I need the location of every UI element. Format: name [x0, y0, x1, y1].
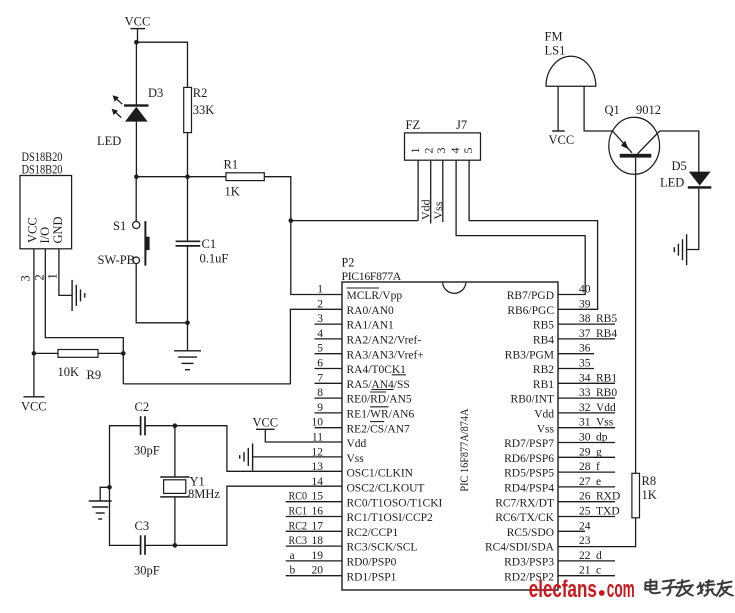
- svg-text:RD4/PSP4: RD4/PSP4: [504, 483, 554, 495]
- svg-text:21: 21: [579, 565, 591, 577]
- svg-text:c: c: [596, 565, 601, 577]
- svg-text:31: 31: [579, 417, 591, 429]
- wire C1 bottom: [187, 246, 189, 351]
- svg-text:RD1/PSP1: RD1/PSP1: [347, 571, 397, 583]
- svg-text:8MHz: 8MHz: [188, 487, 220, 501]
- junction C1/S1: [185, 321, 190, 326]
- svg-text:36: 36: [579, 343, 591, 355]
- wire J7 pin4 to chip pin40: [456, 160, 585, 294]
- svg-text:RA2/AN2/Vref-: RA2/AN2/Vref-: [347, 335, 422, 347]
- svg-text:dp: dp: [596, 432, 608, 444]
- svg-text:33K: 33K: [193, 103, 215, 117]
- wire J7 pin3: [442, 160, 444, 222]
- junction R2/C1: [185, 174, 190, 179]
- svg-text:RB3/PGM: RB3/PGM: [505, 349, 554, 361]
- svg-text:32: 32: [579, 402, 591, 414]
- LED D3: [112, 95, 149, 121]
- power VCC (speaker): [552, 130, 565, 132]
- wire J7 pin1 Vdd: [417, 160, 419, 220]
- svg-text:8: 8: [317, 387, 323, 399]
- svg-text:e: e: [596, 476, 601, 488]
- svg-text:LED: LED: [97, 134, 121, 148]
- ground (C1/S1): [174, 350, 201, 352]
- wire node to S1 top: [135, 177, 137, 222]
- resistor R9: [58, 350, 98, 358]
- svg-text:28: 28: [579, 461, 591, 473]
- wire DS18B20 pin3 (VCC): [33, 249, 35, 397]
- svg-text:OSC1/CLKIN: OSC1/CLKIN: [347, 468, 414, 480]
- svg-text:9012: 9012: [636, 103, 661, 117]
- svg-text:13: 13: [312, 461, 324, 473]
- pin adornment overline CS: [370, 421, 384, 423]
- svg-text:1: 1: [46, 273, 60, 279]
- wire C3 right to OSC2: [145, 486, 342, 545]
- svg-text:RA0/AN0: RA0/AN0: [347, 305, 395, 317]
- resistor R8: [632, 473, 640, 518]
- LED D5: [689, 172, 711, 186]
- wire DS18B20 pin2 (I/O): [45, 249, 123, 384]
- wire DS18B20 pin1 (GND): [59, 249, 72, 296]
- ground (DS18B20): [71, 280, 73, 311]
- svg-text:R8: R8: [642, 474, 657, 488]
- svg-text:RB2: RB2: [533, 364, 554, 376]
- svg-text:RA3/AN3/Vref+: RA3/AN3/Vref+: [347, 349, 424, 361]
- svg-text:RB1: RB1: [596, 372, 617, 384]
- svg-text:J7: J7: [456, 118, 467, 132]
- wire VCC to D3: [135, 42, 137, 105]
- svg-text:RA1/AN1: RA1/AN1: [347, 320, 395, 332]
- svg-text:3: 3: [317, 313, 323, 325]
- svg-text:RB4: RB4: [596, 328, 617, 340]
- wire C1 top: [187, 177, 189, 242]
- svg-text:18: 18: [312, 535, 324, 547]
- junction MCLR/Vdd pullup: [289, 218, 294, 223]
- svg-text:4: 4: [448, 148, 462, 154]
- svg-text:14: 14: [312, 476, 324, 488]
- svg-text:RC7/RX/DT: RC7/RX/DT: [495, 497, 554, 509]
- svg-text:RD5/PSP5: RD5/PSP5: [504, 468, 554, 480]
- svg-text:D5: D5: [672, 159, 687, 173]
- svg-text:RXD: RXD: [596, 491, 620, 503]
- pin adornment overline MCLR: [347, 287, 380, 289]
- svg-text:RC4/SDI/SDA: RC4/SDI/SDA: [485, 542, 555, 554]
- svg-text:d: d: [596, 550, 602, 562]
- svg-text:RC6/TX/CK: RC6/TX/CK: [495, 512, 554, 524]
- capacitor C2: [140, 416, 142, 435]
- svg-text:RB7/PGD: RB7/PGD: [507, 290, 554, 302]
- svg-text:27: 27: [579, 476, 591, 488]
- svg-text:OSC2/CLKOUT: OSC2/CLKOUT: [347, 483, 425, 495]
- wire S1 bottom to C1 ground node: [136, 264, 187, 323]
- svg-text:39: 39: [579, 298, 591, 310]
- ground (D5): [686, 234, 688, 265]
- svg-text:LED: LED: [660, 176, 684, 190]
- svg-text:1K: 1K: [642, 488, 657, 502]
- svg-text:26: 26: [579, 491, 591, 503]
- svg-text:R1: R1: [224, 158, 239, 172]
- svg-text:29: 29: [579, 446, 591, 458]
- svg-text:23: 23: [579, 535, 591, 547]
- svg-text:5: 5: [317, 343, 323, 355]
- svg-text:RB6/PGC: RB6/PGC: [507, 305, 554, 317]
- svg-text:PIC 16F877A/874A: PIC 16F877A/874A: [457, 408, 471, 491]
- svg-text:3: 3: [434, 148, 448, 154]
- svg-text:RB5: RB5: [596, 313, 617, 325]
- svg-text:37: 37: [579, 328, 591, 340]
- svg-text:7: 7: [317, 372, 323, 384]
- wire Q1 collector to D5: [660, 131, 699, 172]
- svg-text:2: 2: [317, 298, 323, 310]
- svg-text:11: 11: [312, 432, 323, 444]
- svg-text:GND: GND: [51, 216, 65, 243]
- svg-text:SW-PB: SW-PB: [98, 253, 136, 267]
- pin adornment underline AN4: [371, 389, 393, 391]
- wire Q1 base down: [635, 158, 637, 474]
- svg-text:S1: S1: [113, 219, 126, 233]
- svg-text:FZ: FZ: [406, 118, 421, 132]
- svg-text:40: 40: [579, 284, 591, 296]
- svg-text:RD7/PSP7: RD7/PSP7: [504, 438, 554, 450]
- svg-text:10: 10: [312, 417, 324, 429]
- capacitor C1: [176, 240, 201, 242]
- svg-text:R9: R9: [87, 368, 102, 382]
- wire D3 to node: [135, 122, 137, 177]
- svg-text:RD6/PSP6: RD6/PSP6: [504, 453, 554, 465]
- svg-text:Vss: Vss: [537, 423, 555, 435]
- pin adornment overline RD: [370, 391, 386, 393]
- svg-text:25: 25: [579, 506, 591, 518]
- svg-text:b: b: [290, 565, 296, 577]
- svg-text:RE0/RD/AN5: RE0/RD/AN5: [347, 394, 412, 406]
- svg-text:38: 38: [579, 313, 591, 325]
- svg-text:R2: R2: [193, 86, 208, 100]
- svg-text:FM: FM: [545, 30, 563, 44]
- svg-text:RC0: RC0: [289, 491, 308, 503]
- svg-text:RC2: RC2: [289, 520, 308, 532]
- wire node down to chip pin1: [291, 221, 342, 295]
- capacitor C3: [140, 535, 142, 555]
- resistor R1: [226, 173, 264, 181]
- wire node row y=176.7: [136, 176, 226, 178]
- svg-text:RC0/T1OSO/T1CKI: RC0/T1OSO/T1CKI: [347, 497, 443, 509]
- svg-text:P2: P2: [342, 256, 355, 270]
- svg-text:Vdd: Vdd: [347, 438, 367, 450]
- junction R9 left: [32, 351, 37, 356]
- wire I/O to chip pin2: [123, 309, 342, 384]
- svg-text:30pF: 30pF: [134, 564, 160, 578]
- svg-text:5: 5: [461, 148, 475, 154]
- svg-text:Q1: Q1: [605, 103, 620, 117]
- svg-text:0.1uF: 0.1uF: [200, 252, 229, 266]
- svg-text:RD0/PSP0: RD0/PSP0: [347, 557, 397, 569]
- svg-text:C2: C2: [135, 400, 150, 414]
- resistor R2: [184, 87, 192, 132]
- speaker LS1 dome: [546, 56, 596, 86]
- svg-text:Vss: Vss: [347, 453, 365, 465]
- svg-text:VCC: VCC: [21, 400, 47, 414]
- svg-text:f: f: [596, 461, 600, 473]
- svg-text:Vdd: Vdd: [596, 402, 616, 414]
- svg-text:9: 9: [317, 402, 323, 414]
- svg-text:Vss: Vss: [596, 417, 614, 429]
- svg-text:VCC: VCC: [252, 416, 278, 430]
- wire VCC to R2: [136, 42, 187, 87]
- svg-text:24: 24: [579, 520, 591, 532]
- wire speaker right leg to Q1 emitter: [584, 86, 612, 131]
- junction R9 right: [121, 351, 126, 356]
- sensor DS18B20 body: [20, 176, 72, 249]
- power VCC (DS18B20): [24, 396, 45, 398]
- svg-text:1K: 1K: [225, 185, 240, 199]
- wire node to J7 pin1: [291, 220, 418, 222]
- svg-text:RD3/PSP3: RD3/PSP3: [504, 557, 554, 569]
- wire speaker left leg: [557, 86, 559, 131]
- svg-text:DS18B20: DS18B20: [22, 163, 63, 177]
- svg-text:1: 1: [317, 284, 323, 296]
- pin adornment underline T0CK1: [392, 374, 406, 376]
- svg-text:D3: D3: [148, 86, 163, 100]
- svg-text:com: com: [607, 576, 635, 603]
- switch S1 SW-PB: [133, 221, 150, 265]
- svg-text:VCC: VCC: [125, 15, 151, 29]
- svg-text:3: 3: [19, 275, 33, 281]
- svg-text:VCC: VCC: [549, 133, 575, 147]
- wire J7 pin5 to chip pin39: [469, 160, 597, 309]
- svg-text:elecfans: elecfans: [529, 576, 597, 603]
- ground (pin 12): [253, 456, 342, 458]
- svg-text:34: 34: [579, 372, 591, 384]
- svg-text:35: 35: [579, 358, 591, 370]
- svg-text:RC3: RC3: [289, 535, 308, 547]
- svg-text:33: 33: [579, 387, 591, 399]
- wire J7 pin2 Vss: [430, 160, 432, 223]
- svg-text:16: 16: [312, 506, 324, 518]
- wire R1 to MCLR node: [264, 177, 291, 221]
- svg-text:C1: C1: [202, 237, 217, 251]
- wire R2 to node: [187, 133, 189, 177]
- junction Y1 bottom: [173, 543, 178, 548]
- wire D5 to ground: [687, 189, 699, 250]
- svg-text:RB5: RB5: [533, 320, 554, 332]
- svg-text:10K: 10K: [58, 365, 80, 379]
- svg-text:4: 4: [317, 328, 323, 340]
- svg-text:22: 22: [579, 550, 591, 562]
- svg-text:RB0: RB0: [596, 387, 617, 399]
- watermark chinese characters: [645, 580, 733, 597]
- svg-text:20: 20: [312, 565, 324, 577]
- junction crystal ground: [107, 485, 112, 490]
- crystal Y1: [174, 426, 176, 477]
- wire C2 right to OSC1: [145, 426, 342, 472]
- svg-text:RB4: RB4: [533, 335, 554, 347]
- svg-text:LS1: LS1: [545, 44, 566, 58]
- svg-text:RC1: RC1: [289, 506, 308, 518]
- node A: VCC junction: [134, 40, 139, 45]
- svg-text:RC1/T1OSI/CCP2: RC1/T1OSI/CCP2: [347, 512, 434, 524]
- svg-text:RE1/WR/AN6: RE1/WR/AN6: [347, 409, 415, 421]
- ground (crystal): [100, 487, 109, 501]
- svg-text:12: 12: [312, 446, 324, 458]
- junction Y1 top: [173, 423, 178, 428]
- connector J7 body: [405, 133, 481, 160]
- svg-text:a: a: [290, 550, 295, 562]
- svg-text:30pF: 30pF: [134, 444, 160, 458]
- pin adornment overline WR: [370, 406, 389, 408]
- svg-text:17: 17: [312, 520, 324, 532]
- svg-text:30: 30: [579, 432, 591, 444]
- svg-text:RC3/SCK/SCL: RC3/SCK/SCL: [347, 542, 418, 554]
- svg-text:TXD: TXD: [596, 506, 620, 518]
- svg-text:1: 1: [408, 148, 422, 154]
- svg-text:g: g: [596, 446, 602, 458]
- svg-text:Vdd: Vdd: [534, 409, 554, 421]
- svg-text:RB0/INT: RB0/INT: [511, 394, 554, 406]
- svg-text:C3: C3: [135, 519, 150, 533]
- svg-text:15: 15: [312, 491, 324, 503]
- wire C2 left / C3 left loop: [110, 426, 141, 546]
- svg-text:6: 6: [317, 358, 323, 370]
- svg-text:I/O: I/O: [38, 227, 52, 244]
- svg-text:MCLR/Vpp: MCLR/Vpp: [347, 290, 403, 302]
- svg-text:2: 2: [33, 274, 47, 280]
- svg-text:19: 19: [312, 550, 324, 562]
- svg-text:RC2/CCP1: RC2/CCP1: [347, 527, 399, 539]
- svg-text:RB1: RB1: [533, 379, 554, 391]
- svg-text:RC5/SDO: RC5/SDO: [507, 527, 554, 539]
- junction D3/S1: [134, 174, 139, 179]
- svg-text:PIC16F877A: PIC16F877A: [342, 269, 402, 283]
- svg-text:RE2/CS/AN7: RE2/CS/AN7: [347, 423, 411, 435]
- wire R8 to chip pin23: [558, 518, 636, 547]
